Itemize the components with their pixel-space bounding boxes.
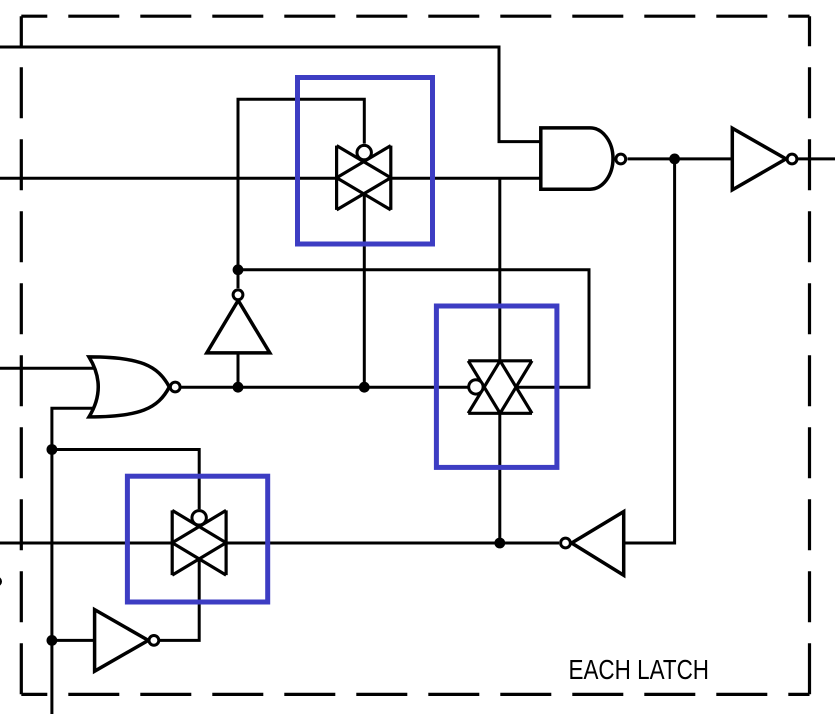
- wire: TG3 bottom terminal down to latch node: [498, 413, 501, 543]
- inverter U3 (points up): [207, 300, 270, 353]
- transmission gate TG1 body: [337, 146, 391, 210]
- inverter U3 output bubble: [233, 290, 243, 300]
- NAND gate U1: [541, 128, 613, 189]
- wire: TG1 control from node A: [238, 99, 364, 269]
- junction on feedback rail upper: [47, 444, 58, 455]
- wire: top input to NAND U1 top input: [0, 47, 541, 142]
- junction on feedback rail lower: [47, 635, 58, 646]
- NAND gate U1 output bubble: [616, 154, 626, 164]
- wire: feedback rail to TG2 control bubble: [52, 450, 199, 510]
- transmission gate TG2 control bubble: [192, 511, 206, 525]
- clipped node dot at left edge: [0, 577, 2, 587]
- latch boundary dashed border left: [20, 16, 23, 694]
- wire: NOR G1 output to TG3 bubble: [181, 386, 468, 389]
- blue highlight box around TG3: [436, 306, 557, 467]
- junction node A: [233, 264, 244, 275]
- blue highlight box around TG2: [127, 476, 267, 602]
- wire: inverter U2 output to right edge: [798, 157, 835, 160]
- wire: inverter U4 input from NAND output net: [624, 159, 675, 543]
- wire: feedback rail to inverter U5 input: [52, 639, 95, 642]
- wire: node A to inverter U3 bubble: [237, 270, 240, 288]
- wire: left data rail into TG2: [0, 542, 172, 545]
- wire: NOR G1 lower input rail down to bottom edge: [52, 408, 98, 714]
- wire: TG3 right terminal up and left to node A: [238, 270, 589, 387]
- wire: inverter U5 output to TG2 bottom terminal: [159, 559, 199, 641]
- output inverter U2: [732, 128, 786, 190]
- latch boundary dashed border top: [21, 15, 809, 18]
- wire: TG2 right terminal to inverter U4 bubble: [226, 542, 559, 545]
- junction on NAND output net: [669, 154, 680, 165]
- junction on NOR output net below U3: [233, 382, 244, 393]
- svg-text:EACH LATCH: EACH LATCH: [569, 654, 710, 685]
- latch boundary dashed border bottom: [21, 693, 809, 696]
- junction on latch node: [494, 538, 505, 549]
- transmission gate TG2 body: [172, 510, 226, 575]
- wire: NAND U1 output to inverter U2: [628, 157, 733, 160]
- blue highlight box around TG1: [298, 78, 433, 245]
- wire: second input rail left of transmission gate TG1: [0, 177, 337, 180]
- wire: second input rail from TG1 to NAND U1 lower input: [391, 177, 541, 180]
- wire: NOR G1 top input: [0, 367, 98, 370]
- latch boundary dashed border right: [808, 16, 811, 694]
- inverter U4 output bubble: [561, 538, 571, 548]
- wire: TG1 bottom terminal down to NOR output net: [363, 194, 366, 387]
- NOR gate G1 output bubble: [170, 382, 180, 392]
- junction on NOR output net below TG1: [359, 382, 370, 393]
- inverter U2 output bubble: [787, 154, 797, 164]
- NOR gate G1: [89, 357, 169, 417]
- wire: TG3 top terminal up to second input rail: [498, 178, 501, 360]
- transmission gate TG3 control bubble: [469, 380, 483, 394]
- wire: inverter U3 base to NOR output net: [237, 353, 240, 387]
- inverter U5 (bottom left): [95, 610, 149, 672]
- inverter U5 output bubble: [149, 636, 159, 646]
- transmission gate TG1 control bubble: [357, 145, 371, 159]
- inverter U4 (points left): [572, 512, 624, 576]
- transmission gate TG3 body: [468, 361, 532, 414]
